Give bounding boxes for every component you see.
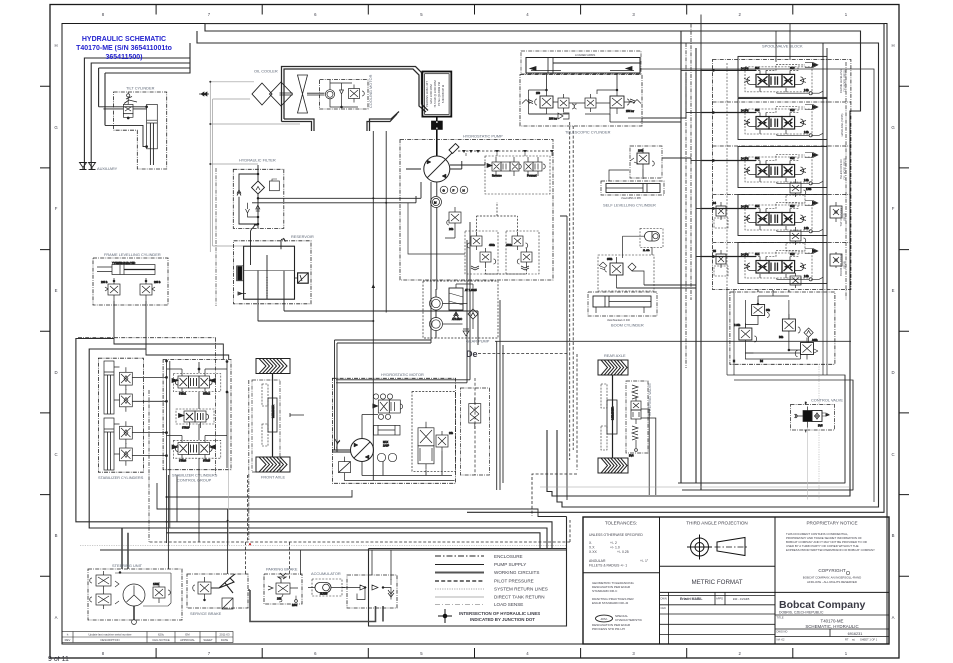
relief pair box left [465,231,498,274]
stabilizer cylinder lower [104,418,163,470]
svg-text:DWN: DWN [661,597,667,601]
svg-text:+/- 1°: +/- 1° [640,559,649,563]
svg-text:NA -02: NA -02 [777,638,785,642]
svg-text:ST024: ST024 [179,460,187,463]
svg-text:wj: wj [852,638,855,642]
legend labels [494,554,548,607]
svg-text:BOOM CYLINDER: BOOM CYLINDER [611,323,644,328]
svg-text:ANGULAR: ANGULAR [589,559,606,563]
direct tank return gray bus [210,82,300,252]
svg-text:COOLING MOTOR: COOLING MOTOR [368,74,373,108]
wire stabilizer to steering drop [167,475,169,569]
svg-text:Vsledni958 crt 985: Vsledni958 crt 985 [621,197,641,200]
breather [281,238,286,249]
frame levelling cylinder body [112,265,155,275]
wire enclosure line4 right [640,69,874,502]
svg-text:STABILIZER CYLINDERS: STABILIZER CYLINDERS [98,475,144,480]
telescopic valve 3 [585,98,596,108]
svg-text:F: F [55,206,58,211]
stab group riser wires [76,339,552,549]
speed sensor [374,425,401,435]
boom counterbalance valve [610,263,623,275]
wire long feed to rear axle [495,340,851,342]
pilot wire parking brake drop [246,475,248,575]
wire feed module4 [696,208,701,210]
svg-text:WORKING CIRCUITS: WORKING CIRCUITS [494,570,539,575]
svg-text:PILOT PRESSURE: PILOT PRESSURE [494,579,534,584]
brake slack adjuster box [222,598,233,609]
svg-text:+/- 1.0: +/- 1.0 [610,546,620,550]
svg-text:TILT CYLINDER: TILT CYLINDER [126,86,155,91]
wire feed module2 [686,112,701,114]
enclosure stab drop line [167,533,541,549]
svg-text:150b: 150b [153,582,159,586]
brake return thick lines [248,590,383,622]
reducing valve lower [801,343,814,355]
wire vertical bus A [681,31,701,490]
zone numbers bottom [102,651,848,656]
svg-text:HYDROSTATIC PUMP: HYDROSTATIC PUMP [463,134,503,139]
diff input [290,413,304,417]
svg-text:D: D [891,370,894,375]
svg-text:M6a: M6a [292,603,298,607]
reducing diamond [804,328,813,337]
svg-text:B6b: B6b [779,336,784,339]
svg-text:ST022: ST022 [203,393,211,396]
svg-text:SELF LEVELLING CYLINDER: SELF LEVELLING CYLINDER [603,203,656,208]
enclosure loop 4 top-left staircase [84,43,190,170]
svg-text:620c: 620c [158,633,165,637]
drive loop lines pump to motor [333,122,852,500]
charge filter w bypass [449,288,463,310]
svg-text:B 35b: B 35b [734,324,741,327]
svg-text:AT 1.6325: AT 1.6325 [465,288,477,292]
svg-text:X.XX: X.XX [589,550,597,554]
svg-text:BV6: BV6 [629,455,634,458]
revision table [62,632,233,643]
svg-text:PROCESS STD PR-UH: PROCESS STD PR-UH [592,627,625,631]
svg-text:BOBCAT COMPANY, AN INGERSOLL-R: BOBCAT COMPANY, AN INGERSOLL-RAND [803,576,861,580]
motor mid dashed box [412,392,456,472]
enclosure loop 1 outermost [205,24,884,513]
spool valve module 3 [701,147,827,188]
svg-text:SERVICE BRAKE: SERVICE BRAKE [190,611,222,616]
flush valve square [339,462,351,473]
relief pair box right [506,231,539,274]
wire self levelling bus [643,158,691,179]
svg-text:9 of 11: 9 of 11 [48,656,69,663]
svg-text:T40170-ME: T40170-ME [821,619,844,624]
enclosure bottom legend line [100,517,567,551]
svg-text:UNLESS OTHERWISE SPECIFIED: UNLESS OTHERWISE SPECIFIED [589,533,643,537]
spool valve module 4 [701,195,827,236]
svg-text:DOBRIS, CZECH REPUBLIC: DOBRIS, CZECH REPUBLIC [779,611,824,615]
pilot wire long dashed bottom [150,520,570,542]
svg-text:APPROVAL: APPROVAL [180,638,195,642]
wire control valve load sense [818,364,820,404]
spool module5 side valves [713,250,842,276]
wire right bus down [845,375,853,490]
stabilizer cylinder upper [104,361,163,414]
spool block outer dashdot [713,60,851,290]
svg-text:CHARACTERISTIC: CHARACTERISTIC [615,618,643,622]
svg-text:6916231: 6916231 [848,632,863,636]
wire rear axle verticals [560,216,567,500]
svg-text:REAR AXLE: REAR AXLE [604,353,626,358]
svg-text:ACCUMULATOR: ACCUMULATOR [311,571,341,576]
svg-text:PUMP SUPPLY: PUMP SUPPLY [494,562,526,567]
wire feed module1 [681,69,701,71]
svg-text:CYLINDER (SB21): CYLINDER (SB21) [843,70,847,92]
frame levelling valve right [140,284,152,295]
rear tire top [598,360,628,375]
legend enclosure box [369,549,567,627]
svg-text:PERKINS 1104C-44T: PERKINS 1104C-44T [425,81,429,107]
wire boom to bus [617,285,697,288]
svg-text:GEAR PUMP: GEAR PUMP [466,339,490,344]
svg-text:H: H [463,189,465,193]
svg-text:CHK: CHK [661,606,667,610]
tilt cylinder group [99,92,167,169]
svg-text:MEMBER: MEMBER [271,404,275,418]
svg-text:SPOOL VALVE BLOCK: SPOOL VALVE BLOCK [762,44,803,49]
svg-text:STEERING UNIT: STEERING UNIT [112,563,143,568]
wire motor top double [336,222,470,383]
wire spool block down [758,290,789,292]
svg-text:ValonStandad crt 046: ValonStandad crt 046 [607,319,630,322]
self levelling cylinder group [601,146,664,195]
svg-text:CYL HOSE (SB22): CYL HOSE (SB22) [843,158,847,180]
level gauge [238,267,242,281]
svg-text:MEMBER: MEMBER [610,406,614,420]
enclosure stair line right-mid [157,483,567,517]
filter square [270,181,280,191]
legend junction dot symbol [438,609,452,623]
svg-text:20b: 20b [449,432,454,435]
svg-text:DIRECT TANK RETURN: DIRECT TANK RETURN [494,595,545,600]
svg-text:A05b: A05b [812,339,818,342]
rear axle shaft [612,375,614,458]
svg-text:RT: RT [845,638,849,642]
wire motor loop verticals [333,340,338,452]
svg-text:FRAME LEVELLING CYLINDER: FRAME LEVELLING CYLINDER [104,252,161,257]
blue sheet title [76,36,172,61]
shift valve [378,400,389,413]
pump internal wires [406,156,485,290]
enclosure left vertical pair [99,68,105,125]
svg-text:OIL COOLER: OIL COOLER [254,69,278,74]
spool module5 relief valve [790,273,801,288]
spool valve module 5 [701,243,827,284]
enclosure nested outline lines [84,24,884,626]
telescopic wires [529,90,633,114]
svg-text:365411500): 365411500) [106,54,143,61]
spool valve module 2 [701,99,827,140]
main pump supply wires to spool block [617,15,854,501]
svg-text:LOADER ARMS: LOADER ARMS [575,53,595,57]
wire gear pump out vertical pair [497,300,503,490]
pilot arrow row [458,150,553,152]
boom cylinder body [588,292,657,316]
svg-text:BV5: BV5 [818,425,823,428]
auxiliary arrows [80,163,96,170]
aux circles [440,186,448,194]
gauge double circle [431,197,442,208]
svg-text:200 bar: 200 bar [549,118,557,121]
charge relief valve [449,212,461,223]
front axle shaft [272,374,274,458]
svg-text:INTERSECTION OF HYDRAULIC LINE: INTERSECTION OF HYDRAULIC LINES [459,611,540,616]
filter out lines double [252,182,421,203]
svg-text:Update last machine serial num: Update last machine serial number [88,633,131,637]
svg-text:EXPRESS PRIOR WRITTEN PERMISSI: EXPRESS PRIOR WRITTEN PERMISSION OF BOBC… [786,548,875,552]
svg-text:X.X: X.X [589,546,595,550]
boom cylinder group [588,255,657,316]
gray return from control group [228,392,230,545]
wire accum group drop [300,550,391,580]
svg-text:(SB23): (SB23) [843,213,847,221]
motor circle [351,439,374,462]
frame levelling valve left [108,284,120,295]
front tire bottom [256,457,290,472]
pressure reducing cluster [730,290,835,364]
front tire top [256,359,290,374]
reducing valve left [739,328,752,340]
svg-text:DESCRIPTION: DESCRIPTION [100,638,119,642]
telescopic valve 1 [540,96,553,108]
svg-text:450b: 450b [506,243,512,247]
spool valve module 1 [701,56,827,97]
svg-text:APPD: APPD [716,597,723,601]
svg-text:E: E [892,288,895,293]
main pump circle [424,156,450,182]
svg-text:+/- 2: +/- 2 [610,541,617,545]
svg-text:PZ No @1400M PM: PZ No @1400M PM [437,81,441,106]
svg-text:TITLE: TITLE [777,616,784,620]
svg-text:350b: 350b [607,258,613,261]
svg-text:B: B [892,533,895,538]
svg-text:SCHEMATIC, HYDRAULIC: SCHEMATIC, HYDRAULIC [805,624,858,629]
svg-text:SHEET 1 OF 1: SHEET 1 OF 1 [860,638,878,642]
svg-text:SHEET: SHEET [203,638,213,642]
svg-text:Forward: Forward [527,174,537,178]
steering valve sections left [96,575,111,586]
svg-text:2L 40b: 2L 40b [643,250,650,252]
svg-text:REV: REV [65,638,71,642]
brake pedal [211,578,234,588]
svg-text:TELESCOPIC CYLINDER: TELESCOPIC CYLINDER [565,130,611,135]
signature table [660,592,776,644]
svg-text:B: B [55,533,58,538]
gear pump circle 2 [430,318,443,331]
reservoir tank [244,246,295,299]
stab control valve 1 [172,369,221,396]
svg-text:20b: 20b [277,597,282,601]
svg-text:F: F [892,206,895,211]
svg-text:230b: 230b [638,150,644,153]
stab control valve 2 (short) [176,409,214,430]
svg-text:2L/130: 2L/130 [320,593,328,596]
svg-text:LOAD SENSE: LOAD SENSE [494,602,523,607]
accumulator 2 [623,228,664,258]
cooling fan [280,75,325,113]
tilt counterbalance valve [123,104,133,113]
svg-text:A: A [892,615,895,620]
gear pump circle 1 [430,297,443,310]
svg-text:MAX 2200 RPM: MAX 2200 RPM [429,84,433,104]
filter diamond [252,181,265,194]
enclosure loop 3 [197,31,879,507]
motor wires [362,415,452,476]
title block [583,517,889,644]
reducing valve mid [782,319,795,331]
servo valves box [485,156,550,194]
svg-text:EW....01/3d05: EW....01/3d05 [733,597,750,601]
svg-text:COPYRIGHT: COPYRIGHT [818,568,846,573]
brake check valve group [342,575,397,608]
wire dashed pilot horiz [478,353,567,355]
shutoff bowtie [199,92,209,96]
wire feed module3 [691,160,701,162]
front axle dash-dot enclosure [252,380,280,472]
svg-text:TILT CYLINDER: TILT CYLINDER [839,207,843,226]
rear tire bottom [598,458,628,473]
svg-text:CONTROL GROUP: CONTROL GROUP [177,478,212,483]
wire feed module5 [696,15,701,257]
svg-text:ST023: ST023 [182,427,190,430]
svg-text:H: H [54,43,57,48]
svg-text:H: H [891,43,894,48]
filter bypass wires [239,165,258,228]
svg-text:Erladri MABIL: Erladri MABIL [680,597,702,601]
svg-text:RESERVOIR: RESERVOIR [291,234,314,239]
svg-text:SYSTEM RETURN LINES: SYSTEM RETURN LINES [494,587,548,592]
svg-text:De: De [466,349,478,359]
brake area drop wires [122,475,228,574]
svg-text:Reverse: Reverse [492,174,502,178]
service brake valve [198,582,211,594]
svg-text:2011-03: 2011-03 [219,633,230,637]
wire load sense dotted long [80,545,567,547]
svg-text:280 b: 280 b [154,280,161,284]
svg-text:ST025: ST025 [203,460,211,463]
mid sheet vertical bus lines [80,24,874,546]
svg-text:F: F [453,189,455,193]
svg-text:INDICATED BY JUNCTION DOT: INDICATED BY JUNCTION DOT [470,617,535,622]
svg-text:Bobcat Company: Bobcat Company [779,599,866,611]
svg-text:AFFILIATE - ALL RIGHTS RESER: AFFILIATE - ALL RIGHTS RESERVED [807,580,857,584]
svg-text:EM: EM [185,633,190,637]
svg-text:250 bar: 250 bar [626,110,634,113]
bypass diamond [468,309,478,319]
svg-text:35b: 35b [766,309,771,312]
spool module4 relief valve [786,227,806,251]
zone letters right [891,43,895,620]
svg-text:ENCLOSURE: ENCLOSURE [494,554,523,559]
reducing valve top [752,305,765,316]
legend line samples [435,556,484,605]
accumulator shell [315,583,331,593]
svg-text:METRIC FORMAT: METRIC FORMAT [691,579,742,586]
svg-text:DATE: DATE [221,638,228,642]
reducing cluster wires [745,296,808,359]
loader arms dashdot box [521,51,641,74]
svg-text:TOLERANCES:: TOLERANCES: [605,521,637,526]
frame ruler ticks top [156,5,793,15]
telescopic valve 4 [610,96,624,108]
oil cooler enclosure channel double-line [282,67,429,132]
svg-text:250: 250 [536,92,541,95]
svg-text:(SP26): (SP26) [843,261,847,269]
steering relief valve right [153,587,165,598]
self levelling cylinder [601,181,664,195]
control group verticals [167,361,228,543]
svg-text:D: D [54,370,57,375]
junction red dot [249,543,251,545]
svg-text:175b: 175b [806,188,812,191]
svg-text:HAND-RAIL (SP25): HAND-RAIL (SP25) [840,114,844,137]
wire bottom right band [678,483,853,490]
tilt cylinder body [147,104,158,148]
spool block long verticals [726,63,728,287]
zone numbers top [102,12,848,17]
svg-text:PROPRIETARY NOTICE: PROPRIETARY NOTICE [806,521,857,526]
wire telescopic to bus [640,70,686,122]
dash-dot machine outline segments [78,338,249,542]
cooler return verticals [372,131,466,480]
svg-text:5.0N DIB RP M: 5.0N DIB RP M [441,84,445,103]
spool block section labels rotated [839,69,847,276]
steering gerotor wheel [123,584,145,606]
svg-text:CONTROL VALVE: CONTROL VALVE [811,398,843,403]
strainer [298,273,309,283]
svg-text:HYDRAULIC SCHEMATIC: HYDRAULIC SCHEMATIC [82,36,166,43]
svg-text:T40170-ME (S/N 365411001to: T40170-ME (S/N 365411001to [76,45,172,52]
wire service brake drop [227,509,229,574]
parking brake cylinder [276,583,290,594]
svg-text:BOOM CYLINDER: BOOM CYLINDER [839,254,843,276]
svg-text:2ASP: 2ASP [383,445,390,448]
svg-text:20b: 20b [449,227,454,231]
svg-text:ENGR STANDARD DR-J2: ENGR STANDARD DR-J2 [592,601,628,605]
svg-text:X.: X. [589,541,592,545]
svg-text:AUXILIARY: AUXILIARY [97,166,118,171]
motor gauges [377,453,385,461]
svg-text:HYDROSTATIC MOTOR: HYDROSTATIC MOTOR [381,372,424,377]
svg-text:FRONT AXLE: FRONT AXLE [261,475,286,480]
cooling motor group [320,80,368,109]
svg-text:DWG NO: DWG NO [777,630,788,634]
svg-text:THIRD ANGLE PROJECTION: THIRD ANGLE PROJECTION [686,521,748,526]
svg-text:HYDRAULIC FILTER: HYDRAULIC FILTER [239,158,276,163]
engine coupling [432,117,443,157]
wire pump A/B down [335,182,432,343]
telescopic valve 2 [558,98,569,108]
wire steering valve pilots [570,122,577,470]
svg-text:E: E [55,288,58,293]
svg-text:280 b: 280 b [101,280,108,284]
svg-text:450b: 450b [489,243,495,247]
svg-text:TELESCOPE RC: TELESCOPE RC [839,159,843,179]
tilt wires [99,107,147,109]
svg-text:A: A [55,615,58,620]
wire block bottom to band [727,287,827,375]
svg-text:-DIM-: -DIM- [600,617,608,621]
tolerances text [605,521,637,526]
svg-text:STANDARD DR-C: STANDARD DR-C [592,589,618,593]
svg-text:FILLETS & RADIUS +/- 1: FILLETS & RADIUS +/- 1 [589,564,627,568]
svg-text:C: C [54,452,57,457]
